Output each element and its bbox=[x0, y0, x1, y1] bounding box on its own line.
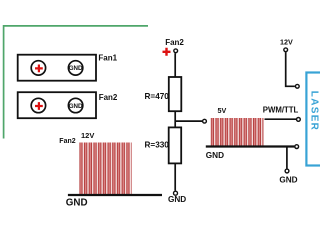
svg-text:PWM/TTL: PWM/TTL bbox=[263, 105, 299, 114]
svg-text:Fan2: Fan2 bbox=[59, 138, 75, 145]
svg-text:Fan2: Fan2 bbox=[99, 93, 118, 102]
svg-text:GND: GND bbox=[206, 151, 224, 160]
svg-text:LASER: LASER bbox=[308, 91, 319, 131]
svg-text:12V: 12V bbox=[280, 38, 293, 47]
svg-text:5V: 5V bbox=[218, 106, 227, 115]
svg-text:GND: GND bbox=[66, 198, 88, 209]
svg-text:Fan1: Fan1 bbox=[98, 54, 117, 63]
svg-text:R=470: R=470 bbox=[145, 92, 170, 101]
svg-text:R=330: R=330 bbox=[145, 140, 170, 149]
svg-text:GND: GND bbox=[168, 195, 186, 204]
svg-text:GND: GND bbox=[69, 65, 83, 72]
svg-text:Fan2: Fan2 bbox=[165, 38, 184, 47]
svg-text:12V: 12V bbox=[81, 131, 94, 140]
svg-text:GND: GND bbox=[69, 103, 83, 110]
svg-text:GND: GND bbox=[279, 175, 297, 184]
